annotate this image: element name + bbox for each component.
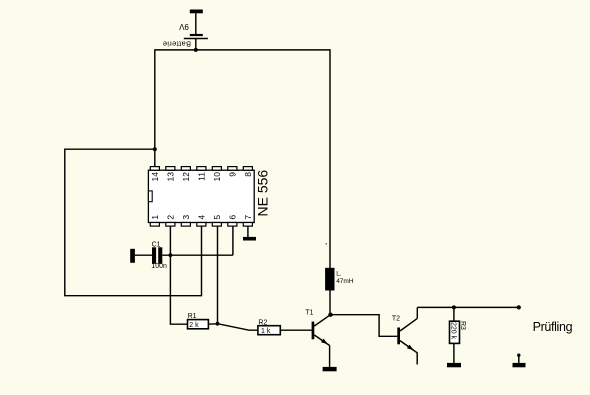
wire C1 to pin 6 net xyxy=(162,254,233,256)
wire R1 right xyxy=(208,323,217,325)
wire T1 emitter down xyxy=(329,346,331,368)
svg-text:5: 5 xyxy=(212,215,222,220)
battery B1 plates xyxy=(184,35,208,39)
U1 pin 13 xyxy=(166,167,176,182)
svg-text:11: 11 xyxy=(197,172,207,181)
U1 pin 14 xyxy=(150,167,160,182)
ground at R3 xyxy=(447,363,461,367)
svg-text:R3: R3 xyxy=(459,321,466,330)
svg-text:3: 3 xyxy=(181,215,191,220)
ground at pin 7 xyxy=(243,237,256,241)
IC U1 NE 556 body xyxy=(148,170,254,222)
U1 pin 4 xyxy=(197,215,207,227)
wire rail to inductor xyxy=(329,49,331,268)
resistor R2 xyxy=(258,326,280,335)
wire T1 collector to T2 base xyxy=(331,315,398,337)
junction T1 collector xyxy=(328,313,332,317)
wire battery bottom lead xyxy=(195,39,197,51)
junction C1 / pin 2 xyxy=(169,253,173,257)
junction rail-left / pin14 xyxy=(153,147,157,151)
U1 pin 5 xyxy=(212,215,222,227)
svg-text:L.: L. xyxy=(336,271,342,278)
junction battery / rail xyxy=(194,48,198,52)
svg-text:NE 556: NE 556 xyxy=(254,170,270,217)
wire pin 6 down to C1 net xyxy=(232,226,234,255)
wire inductor to T1 collector xyxy=(329,291,331,315)
inductor L1 xyxy=(325,268,334,291)
terminal A dot xyxy=(517,305,521,309)
wire pin 7 ground stub xyxy=(247,226,249,237)
wire left detour to pin 4 xyxy=(65,149,202,296)
svg-text:1: 1 xyxy=(150,215,160,220)
resistor R1 xyxy=(188,320,209,329)
wire terminal B stub xyxy=(518,355,520,363)
wire pin 2 net down to R1 xyxy=(170,255,187,324)
svg-text:2: 2 xyxy=(166,215,176,220)
wire battery top lead xyxy=(195,13,197,34)
IC pin-1 notch xyxy=(148,191,152,202)
svg-text:8: 8 xyxy=(243,172,253,177)
wire output line xyxy=(417,306,519,308)
svg-text:Prüfling: Prüfling xyxy=(533,320,573,334)
svg-text:2 k: 2 k xyxy=(189,322,199,329)
wire pin 5 down to R1 junction xyxy=(217,226,219,324)
U1 pin 8 xyxy=(243,167,253,177)
svg-text:T1: T1 xyxy=(305,310,313,317)
svg-text:R2: R2 xyxy=(258,319,267,326)
svg-text:Batterie: Batterie xyxy=(162,40,191,49)
U1 pin 3 xyxy=(181,215,191,227)
svg-text:T2: T2 xyxy=(392,315,400,322)
svg-text:10: 10 xyxy=(212,172,222,182)
svg-text:14: 14 xyxy=(150,172,160,182)
junction R3 top xyxy=(452,305,456,309)
U1 pin 7 xyxy=(243,215,253,227)
wire R1 junction to R2 (diagonal) xyxy=(218,324,258,331)
U1 pin 1 xyxy=(150,215,160,227)
svg-text:4: 4 xyxy=(197,215,207,220)
svg-text:9V: 9V xyxy=(178,22,188,31)
U1 pin 9 xyxy=(228,167,238,177)
wire +9V top rail xyxy=(155,49,330,51)
svg-text:C1: C1 xyxy=(152,241,161,248)
U1 pin 2 xyxy=(166,215,176,227)
ground bar at C1 xyxy=(130,249,135,263)
U1 pin 6 xyxy=(228,215,238,227)
svg-text:9: 9 xyxy=(228,172,238,177)
wire T2 collector up xyxy=(416,307,418,318)
ground at terminal B xyxy=(513,363,526,367)
svg-text:13: 13 xyxy=(166,172,176,182)
ground at T1 emitter xyxy=(323,367,337,371)
U1 pin 12 xyxy=(181,167,191,182)
wire T2 emitter stub xyxy=(416,352,418,365)
svg-text:12: 12 xyxy=(181,172,191,182)
U1 pin 10 xyxy=(212,167,222,182)
stray mark xyxy=(326,243,328,245)
svg-text:220 k: 220 k xyxy=(449,322,456,340)
battery power bar xyxy=(190,10,203,14)
capacitor C1 plates xyxy=(152,247,162,263)
wire C1 left lead xyxy=(135,254,152,256)
wire rail to pin 14 xyxy=(154,49,156,167)
svg-text:7: 7 xyxy=(243,215,253,220)
svg-text:1 k: 1 k xyxy=(261,328,271,335)
terminal B dot xyxy=(517,354,520,357)
svg-text:47mH: 47mH xyxy=(336,278,354,285)
junction R1 / pin 5 xyxy=(216,322,220,326)
U1 pin 11 xyxy=(197,167,207,181)
transistor T1 xyxy=(312,315,331,346)
transistor T2 xyxy=(397,318,417,351)
wire R3 bottom lead xyxy=(453,343,455,363)
svg-text:R1: R1 xyxy=(188,313,197,320)
svg-text:100n: 100n xyxy=(151,263,167,270)
wire R3 top lead xyxy=(453,307,455,321)
resistor R3 xyxy=(450,321,460,343)
wire pin 2 down xyxy=(169,226,171,255)
wire R2 to T1 base xyxy=(280,329,311,331)
svg-text:6: 6 xyxy=(228,215,238,220)
